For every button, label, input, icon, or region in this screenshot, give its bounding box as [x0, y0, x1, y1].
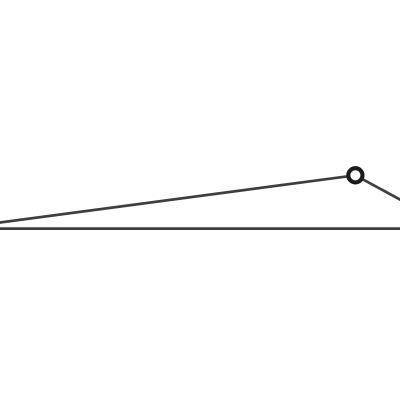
switch lever arm (long diagonal from left edge to pivot): [0, 175, 355, 223]
wire segment (pivot to right edge): [355, 175, 400, 203]
wire (bottom horizontal rail): [0, 227, 400, 230]
pivot terminal post (open circle): [348, 168, 362, 182]
